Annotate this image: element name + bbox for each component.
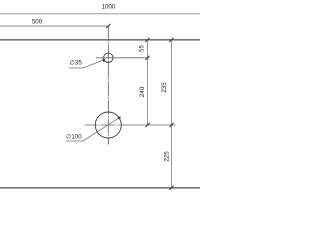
svg-text:1000: 1000 (102, 4, 116, 11)
leader landing D35 (69, 67, 83, 69)
plate bottom edge (0, 187, 200, 189)
arrowhead D35 (102, 59, 105, 62)
svg-text:55: 55 (139, 45, 146, 52)
svg-text:∅35: ∅35 (70, 59, 83, 66)
dimension line A (55 / 240 chain) (147, 40, 149, 125)
tick dimB bottom (169, 186, 173, 190)
svg-text:235: 235 (161, 82, 168, 93)
hole vertical centerline (107, 26, 109, 145)
leader line D100 (83, 117, 121, 141)
tick at 500 end (106, 24, 110, 28)
svg-text:240: 240 (139, 86, 146, 97)
leader line D35 (83, 60, 104, 68)
dimension line 500 (0, 25, 108, 27)
dimension line B (235 / 225 chain) (171, 40, 173, 188)
small hole circle D35 (104, 53, 113, 62)
big hole horizontal centerline / extension to dim B (85, 124, 176, 126)
tick dimA top (145, 38, 149, 42)
arrowhead D100 (117, 117, 121, 120)
tick dimB top (169, 38, 173, 42)
svg-text:225: 225 (164, 151, 171, 162)
dimension line 1000 (0, 13, 200, 15)
tick dimB middle (169, 123, 173, 127)
svg-text:500: 500 (32, 18, 43, 25)
leader landing D100 (66, 140, 83, 142)
small hole horizontal centerline / extension to dim A (96, 57, 150, 59)
tick dimA bottom (145, 123, 149, 127)
svg-text:∅100: ∅100 (66, 134, 82, 141)
tick dimA middle (145, 56, 149, 60)
plate top edge (0, 39, 200, 41)
big hole circle D100 (95, 112, 121, 138)
